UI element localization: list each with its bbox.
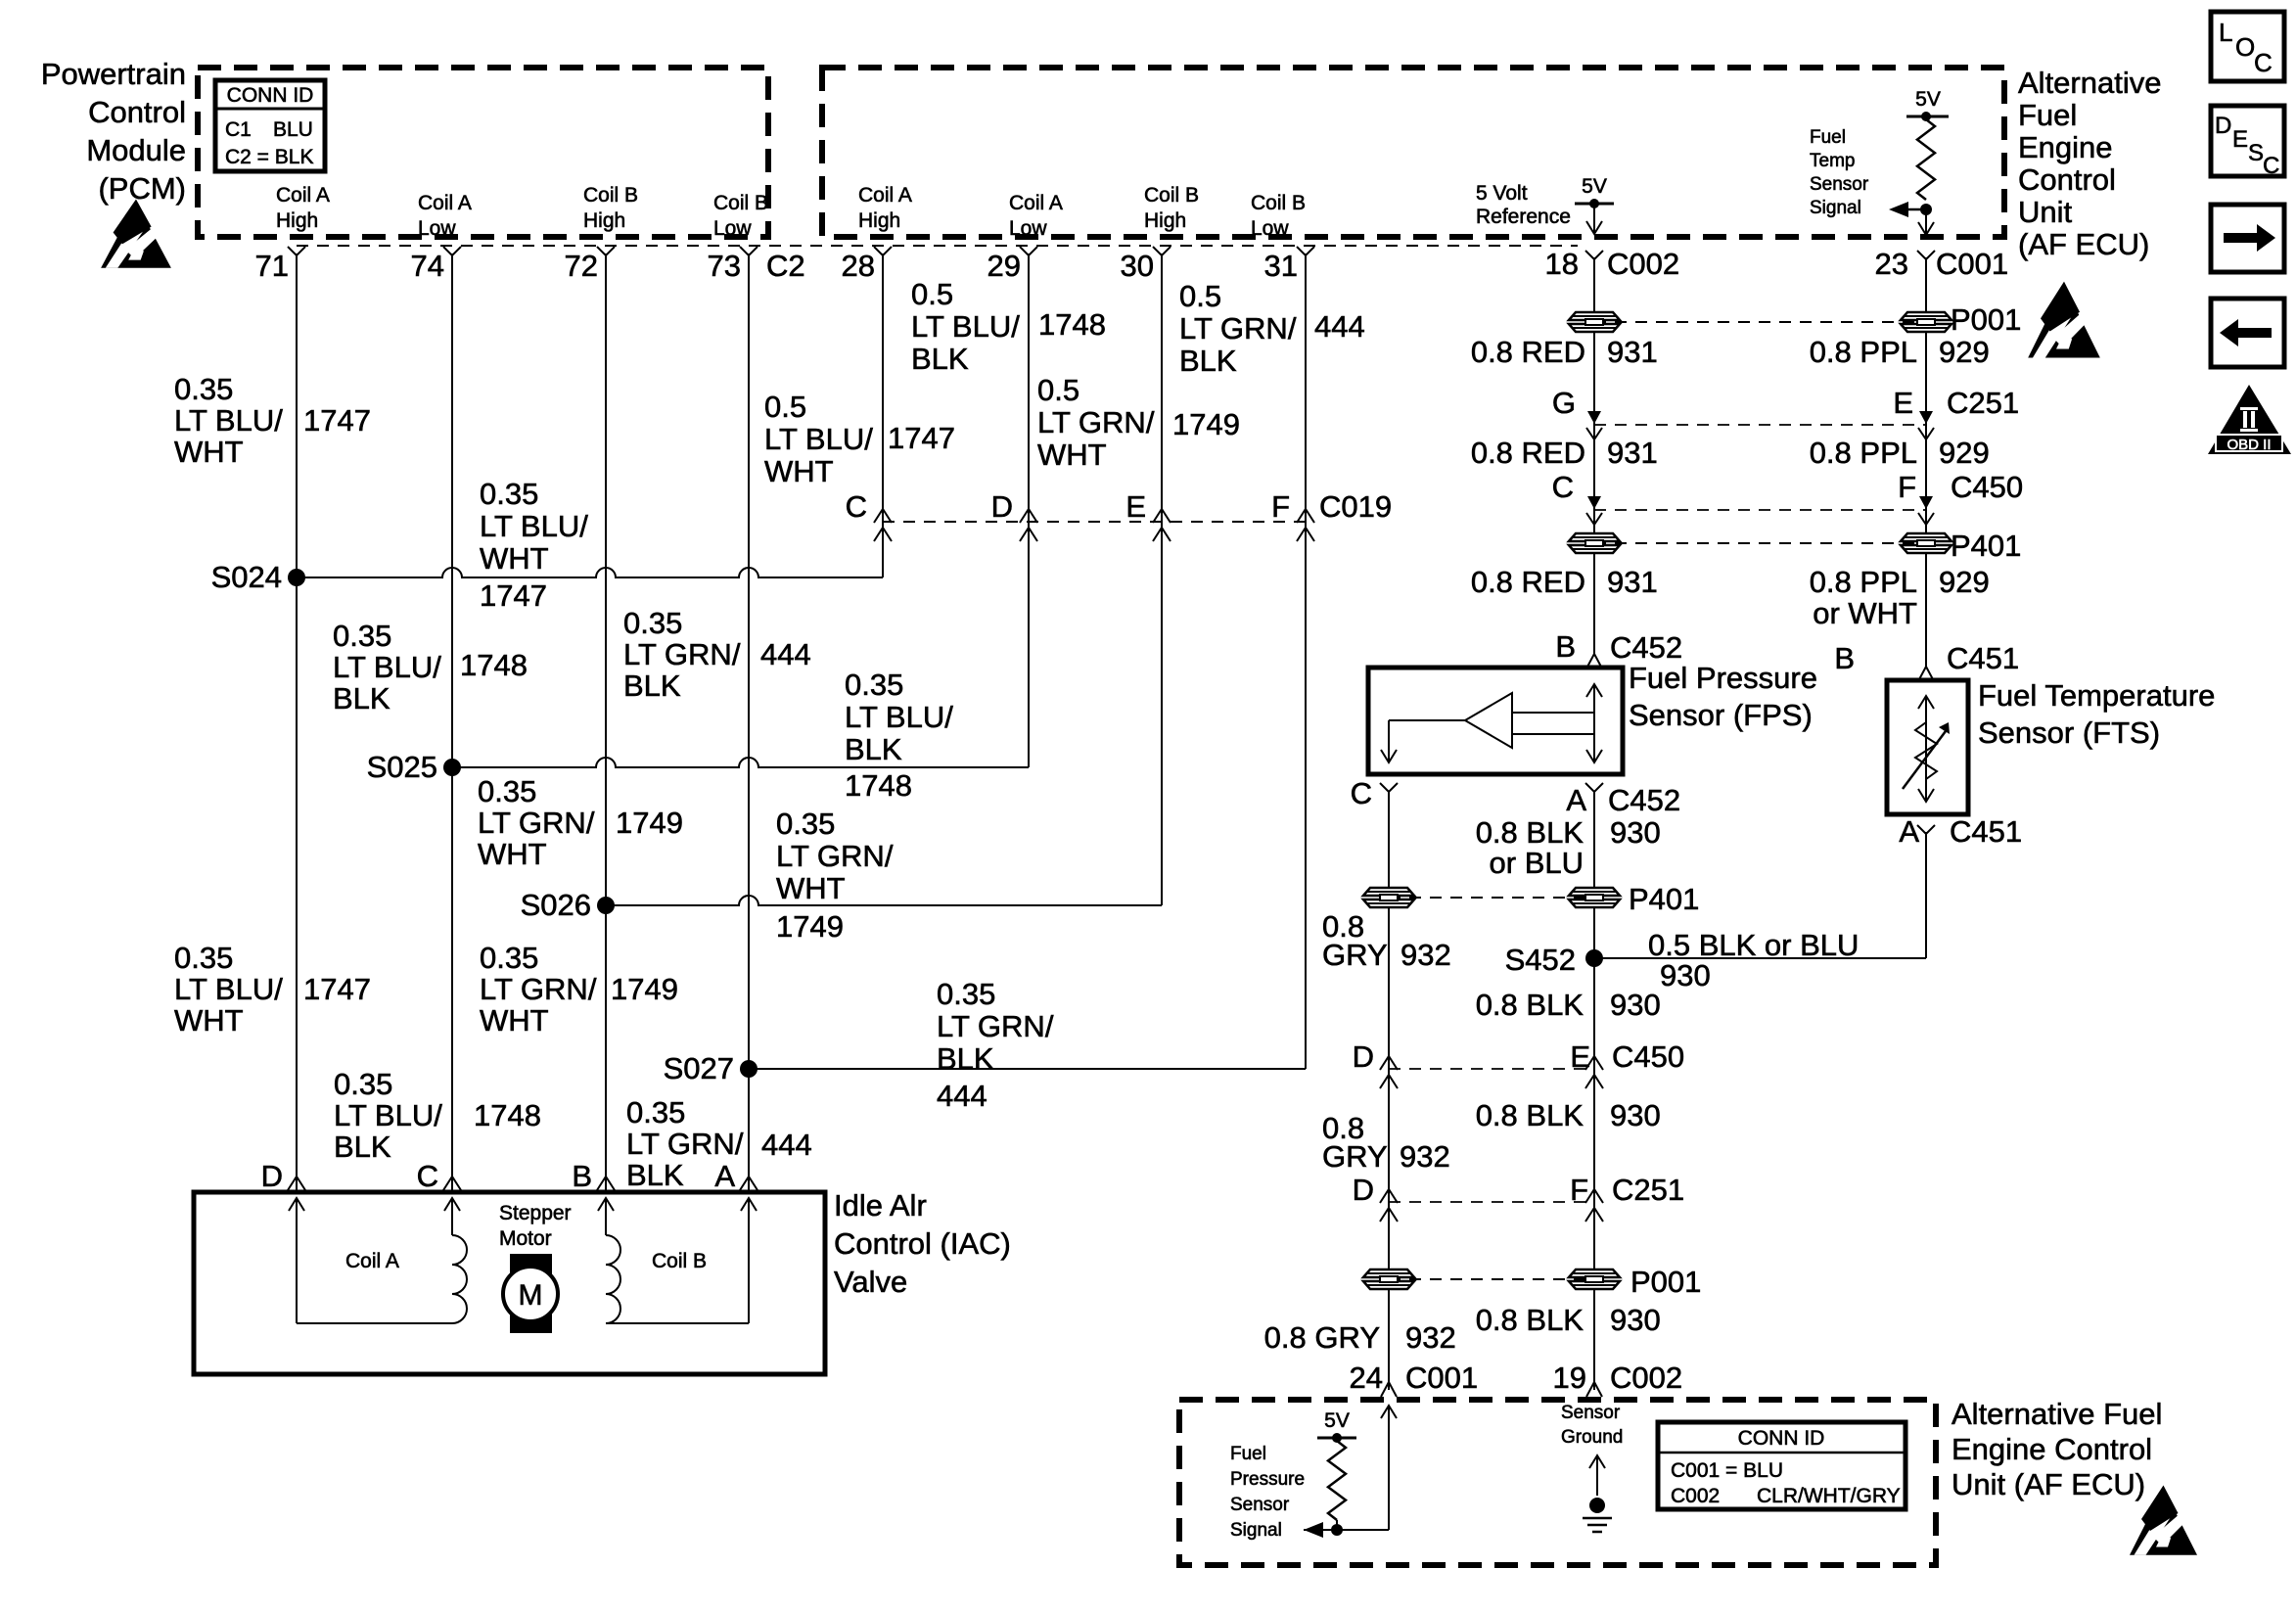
svg-text:A: A xyxy=(1566,783,1586,817)
C019 pin D xyxy=(1020,509,1037,523)
svg-text:0.8 GRY: 0.8 GRY xyxy=(1264,1320,1380,1355)
FPS pin B fork xyxy=(1586,654,1602,669)
svg-text:LT BLU/: LT BLU/ xyxy=(764,422,873,456)
svg-text:WHT: WHT xyxy=(776,871,846,905)
pin 71 (Coil A High) xyxy=(288,247,305,255)
svg-text:5V: 5V xyxy=(1582,175,1607,198)
svg-text:C2: C2 xyxy=(766,249,805,283)
wire: pin 28 down to splice S024 line xyxy=(882,254,884,577)
wire pin 24 to fuel pressure sensor signal node xyxy=(1388,1406,1390,1530)
svg-text:C: C xyxy=(1351,776,1372,810)
svg-text:B: B xyxy=(1555,629,1576,664)
svg-text:Temp: Temp xyxy=(1810,151,1855,171)
wire: pin 23 (0.8 PPL 929) down to FTS pin B xyxy=(1925,257,1927,667)
svg-text:Pressure: Pressure xyxy=(1230,1469,1305,1490)
C019 pin F xyxy=(1297,509,1314,523)
FPS internal amplifier xyxy=(1593,685,1595,734)
svg-text:Sensor: Sensor xyxy=(1810,174,1869,195)
connector dashed line C2/pins row xyxy=(297,245,1578,247)
svg-text:930: 930 xyxy=(1610,1098,1661,1132)
wire: pin 29 down to splice S025 line xyxy=(1028,254,1030,767)
dashed pairing line P001 xyxy=(1594,321,1926,323)
svg-text:0.8 BLK: 0.8 BLK xyxy=(1476,815,1584,850)
svg-text:LT BLU/: LT BLU/ xyxy=(334,1098,442,1132)
pin 23 of C001 xyxy=(1917,251,1935,259)
svg-text:Valve: Valve xyxy=(834,1265,907,1299)
svg-text:5V: 5V xyxy=(1324,1409,1350,1432)
FTS internal thermistor xyxy=(1925,697,1927,801)
svg-text:E: E xyxy=(1893,386,1913,420)
svg-text:Unit: Unit xyxy=(2018,195,2073,229)
svg-text:931: 931 xyxy=(1607,335,1658,369)
svg-text:Coil B: Coil B xyxy=(583,184,638,207)
svg-text:29: 29 xyxy=(987,249,1021,283)
svg-text:D: D xyxy=(1353,1039,1374,1074)
svg-text:C019: C019 xyxy=(1319,489,1392,524)
svg-text:A: A xyxy=(714,1159,735,1193)
in-line connector C251 row (G/E) xyxy=(1594,424,1926,426)
svg-text:71: 71 xyxy=(255,249,289,283)
svg-text:E: E xyxy=(2232,126,2248,153)
dashed pairing line P401 xyxy=(1594,542,1926,544)
svg-text:0.35: 0.35 xyxy=(776,807,835,841)
svg-text:0.35: 0.35 xyxy=(478,774,536,808)
svg-text:1748: 1748 xyxy=(460,648,528,682)
svg-text:0.5: 0.5 xyxy=(911,277,953,311)
svg-text:Fuel Temperature: Fuel Temperature xyxy=(1978,678,2215,713)
IAC pin A xyxy=(740,1177,758,1190)
svg-text:F: F xyxy=(1570,1173,1588,1207)
svg-text:Coil B: Coil B xyxy=(652,1250,707,1272)
svg-text:Motor: Motor xyxy=(499,1227,552,1250)
svg-text:C: C xyxy=(2254,48,2273,77)
svg-text:Low: Low xyxy=(1009,217,1047,240)
svg-text:Coil A: Coil A xyxy=(1009,192,1063,214)
splice S025 xyxy=(443,759,461,776)
svg-text:LT GRN/: LT GRN/ xyxy=(626,1127,744,1161)
CONN ID table (AF ECU): C001=BLU / C002 CLR/WHT/GRY xyxy=(1658,1422,1906,1509)
svg-text:929: 929 xyxy=(1939,335,1990,369)
in-line connector C450 row (D/E) xyxy=(1389,1068,1594,1070)
svg-text:Engine Control: Engine Control xyxy=(1952,1432,2152,1466)
svg-text:1749: 1749 xyxy=(616,806,683,840)
svg-text:D: D xyxy=(1353,1173,1374,1207)
svg-text:WHT: WHT xyxy=(480,1003,549,1038)
svg-text:LT GRN/: LT GRN/ xyxy=(623,637,741,671)
svg-text:CONN ID: CONN ID xyxy=(227,84,314,107)
svg-text:Control: Control xyxy=(88,95,186,129)
FTS pin B fork xyxy=(1918,667,1934,681)
svg-text:BLK: BLK xyxy=(845,732,902,766)
svg-text:WHT: WHT xyxy=(480,541,549,576)
svg-text:444: 444 xyxy=(761,1128,812,1162)
svg-text:O: O xyxy=(2235,32,2255,62)
svg-text:930: 930 xyxy=(1610,815,1661,850)
inline connector P401 left xyxy=(1569,533,1620,553)
svg-text:BLK: BLK xyxy=(623,669,681,703)
svg-text:S: S xyxy=(2248,140,2264,166)
ESD symbol under PCM label xyxy=(101,199,171,267)
svg-text:Coil B: Coil B xyxy=(713,192,768,214)
svg-text:Coil A: Coil A xyxy=(276,184,330,207)
svg-text:Low: Low xyxy=(418,217,456,240)
svg-text:S024: S024 xyxy=(211,560,282,594)
svg-text:0.8 RED: 0.8 RED xyxy=(1471,436,1585,470)
pin 19 of C002 xyxy=(1586,1382,1602,1397)
in-line connector C251 row (D/F) xyxy=(1389,1201,1594,1203)
wire: pin 30 down to splice S026 line xyxy=(1161,254,1163,905)
svg-text:C: C xyxy=(417,1159,438,1193)
svg-text:LT BLU/: LT BLU/ xyxy=(845,700,953,734)
svg-text:74: 74 xyxy=(411,249,444,283)
svg-text:Fuel Pressure: Fuel Pressure xyxy=(1629,661,1817,695)
splice S025 horizontal wire to pin 29 xyxy=(452,758,1029,767)
svg-text:Fuel: Fuel xyxy=(2018,98,2077,132)
svg-text:Sensor: Sensor xyxy=(1230,1495,1290,1515)
svg-text:High: High xyxy=(1144,209,1186,232)
svg-text:(AF ECU): (AF ECU) xyxy=(2018,227,2149,261)
svg-text:Signal: Signal xyxy=(1810,198,1861,218)
wire: pin 71 Coil A High (LT BLU/WHT 1747) down to IAC pin D xyxy=(296,254,298,1192)
wire: FPS pin C down to pin 24 C001 (0.8 GRY 932) xyxy=(1388,792,1390,1390)
svg-text:30: 30 xyxy=(1121,249,1154,283)
sidebar forward arrow box xyxy=(2211,205,2284,272)
inline connector P001 right xyxy=(1901,312,1952,332)
svg-text:0.35: 0.35 xyxy=(333,619,391,653)
svg-text:Unit (AF ECU): Unit (AF ECU) xyxy=(1952,1467,2145,1501)
svg-text:C251: C251 xyxy=(1947,386,2019,420)
svg-text:BLK: BLK xyxy=(911,342,969,376)
svg-text:LT GRN/: LT GRN/ xyxy=(1179,311,1297,346)
svg-text:Alternative Fuel: Alternative Fuel xyxy=(1952,1397,2162,1431)
pin 28 (Coil A High) xyxy=(874,247,892,255)
svg-text:LT GRN/: LT GRN/ xyxy=(776,839,894,873)
OBD II triangle symbol xyxy=(2208,385,2291,454)
svg-text:31: 31 xyxy=(1264,249,1298,283)
svg-text:B: B xyxy=(572,1159,592,1193)
svg-text:1749: 1749 xyxy=(611,972,678,1006)
svg-text:C001 = BLU: C001 = BLU xyxy=(1671,1459,1783,1482)
sidebar LOC box xyxy=(2211,12,2284,81)
svg-text:D: D xyxy=(991,489,1013,524)
svg-text:WHT: WHT xyxy=(478,837,547,871)
svg-text:0.8 PPL: 0.8 PPL xyxy=(1810,436,1917,470)
svg-text:LT GRN/: LT GRN/ xyxy=(478,806,595,840)
svg-text:930: 930 xyxy=(1610,988,1661,1022)
svg-text:0.8 RED: 0.8 RED xyxy=(1471,565,1585,599)
svg-text:Idle Alr: Idle Alr xyxy=(834,1188,927,1223)
wire: pin 18 (0.8 RED 931) down to FPS pin B xyxy=(1593,257,1595,654)
Idle Air Control (IAC) Valve box xyxy=(194,1192,825,1374)
svg-text:5 Volt: 5 Volt xyxy=(1476,182,1528,205)
svg-text:0.35: 0.35 xyxy=(937,977,995,1011)
svg-text:BLK: BLK xyxy=(626,1158,684,1192)
svg-text:B: B xyxy=(1834,641,1855,675)
svg-text:C001: C001 xyxy=(1936,247,2008,281)
sidebar back arrow box xyxy=(2211,299,2284,367)
FPS pin C fork xyxy=(1380,783,1398,792)
svg-text:73: 73 xyxy=(708,249,741,283)
svg-text:930: 930 xyxy=(1660,958,1711,992)
svg-text:M: M xyxy=(519,1279,543,1312)
svg-text:C451: C451 xyxy=(1947,641,2019,675)
svg-text:C002: C002 xyxy=(1607,247,1679,281)
FPS pin A fork xyxy=(1585,783,1603,792)
pin 24 of C001 xyxy=(1381,1382,1397,1397)
svg-text:High: High xyxy=(276,209,318,232)
svg-text:0.8 PPL: 0.8 PPL xyxy=(1810,565,1917,599)
splice S024 horizontal wire to pin 28 xyxy=(297,568,883,577)
inline connector P001 lower right xyxy=(1569,1269,1620,1289)
svg-text:S026: S026 xyxy=(521,888,591,922)
svg-text:OBD II: OBD II xyxy=(2227,437,2271,453)
svg-text:P001: P001 xyxy=(1951,302,2021,337)
svg-text:LT BLU/: LT BLU/ xyxy=(333,650,441,684)
svg-text:0.5: 0.5 xyxy=(1037,373,1079,407)
svg-text:WHT: WHT xyxy=(174,435,244,469)
svg-text:Engine: Engine xyxy=(2018,130,2113,164)
svg-text:Low: Low xyxy=(1251,217,1289,240)
splice S026 horizontal wire to pin 30 xyxy=(606,896,1162,905)
svg-text:C002: C002 xyxy=(1671,1485,1720,1507)
svg-text:Control: Control xyxy=(2018,162,2116,197)
in-line connector C019 dashed line xyxy=(883,521,1306,523)
svg-text:LT GRN/: LT GRN/ xyxy=(480,972,597,1006)
svg-text:C251: C251 xyxy=(1612,1173,1684,1207)
dashed pairing line P001 lower xyxy=(1389,1278,1594,1280)
svg-text:0.8 RED: 0.8 RED xyxy=(1471,335,1585,369)
Fuel Pressure Sensor (FPS) box xyxy=(1368,668,1623,774)
svg-text:LT BLU/: LT BLU/ xyxy=(174,403,283,438)
svg-text:1748: 1748 xyxy=(474,1098,541,1132)
module box: Powertrain Control Module (PCM), dashed outline xyxy=(198,68,768,237)
C019 pin C xyxy=(874,509,892,523)
svg-text:Signal: Signal xyxy=(1230,1520,1282,1541)
node: fuel pressure sensor signal xyxy=(1331,1524,1343,1536)
svg-text:LT GRN/: LT GRN/ xyxy=(1037,405,1155,439)
pin 72 (Coil B High) xyxy=(597,247,615,255)
svg-text:D: D xyxy=(261,1159,283,1193)
svg-text:Coil A: Coil A xyxy=(345,1250,399,1272)
svg-text:LT BLU/: LT BLU/ xyxy=(911,309,1020,344)
wire: FTS pin A down then left to S452 (0.5 BLK or BLU 930) xyxy=(1925,832,1927,958)
svg-text:BLU: BLU xyxy=(273,118,313,141)
svg-text:C001: C001 xyxy=(1405,1361,1478,1395)
inline connector P401 lower right xyxy=(1569,888,1620,907)
svg-text:444: 444 xyxy=(937,1079,987,1113)
svg-text:23: 23 xyxy=(1875,247,1908,281)
wire: FPS pin A down to pin 19 C002 (0.8 BLK 930) xyxy=(1593,792,1595,1390)
svg-text:0.5: 0.5 xyxy=(1179,279,1221,313)
inline connector P001 left xyxy=(1569,312,1620,332)
IAC pin C xyxy=(443,1177,461,1190)
svg-text:C450: C450 xyxy=(1612,1039,1684,1074)
svg-text:Sensor (FTS): Sensor (FTS) xyxy=(1978,715,2160,750)
module box: Alternative Fuel Engine Control Unit (bottom), dashed outline xyxy=(1179,1400,1936,1565)
IAC pin D xyxy=(288,1177,305,1190)
svg-text:1749: 1749 xyxy=(776,909,844,944)
svg-text:0.35: 0.35 xyxy=(626,1095,685,1130)
wire: pin 73 Coil B Low down to IAC pin A xyxy=(748,254,750,1192)
svg-text:0.8 BLK: 0.8 BLK xyxy=(1476,1098,1584,1132)
svg-text:0.35: 0.35 xyxy=(174,941,233,975)
svg-text:929: 929 xyxy=(1939,565,1990,599)
svg-text:S452: S452 xyxy=(1505,943,1576,977)
svg-text:Module: Module xyxy=(86,133,186,167)
pin 18 of C002 xyxy=(1585,251,1603,259)
svg-text:BLK: BLK xyxy=(1179,344,1237,378)
IAC pin B xyxy=(597,1177,615,1190)
inline connector P401 right xyxy=(1901,533,1952,553)
svg-text:D: D xyxy=(2215,113,2231,139)
svg-text:0.35: 0.35 xyxy=(480,941,538,975)
node: fuel temp sensor signal xyxy=(1920,204,1932,215)
ESD symbol near P001 right xyxy=(2028,282,2100,358)
svg-text:1747: 1747 xyxy=(303,972,371,1006)
svg-text:1747: 1747 xyxy=(303,403,371,438)
svg-text:Coil B: Coil B xyxy=(1144,184,1199,207)
svg-text:Alternative: Alternative xyxy=(2018,66,2161,100)
svg-text:CONN ID: CONN ID xyxy=(1738,1427,1825,1450)
svg-text:LT BLU/: LT BLU/ xyxy=(174,972,283,1006)
svg-text:444: 444 xyxy=(760,637,811,671)
svg-text:Ground: Ground xyxy=(1561,1427,1623,1448)
svg-text:72: 72 xyxy=(565,249,598,283)
svg-text:930: 930 xyxy=(1610,1303,1661,1337)
svg-text:28: 28 xyxy=(842,249,875,283)
svg-text:P001: P001 xyxy=(1630,1265,1701,1299)
pin 74 (Coil A Low) xyxy=(443,247,461,255)
svg-text:(PCM): (PCM) xyxy=(98,171,186,206)
svg-text:0.35: 0.35 xyxy=(334,1067,392,1101)
svg-text:LT GRN/: LT GRN/ xyxy=(937,1009,1054,1043)
in-line connector C450 row (C/F) xyxy=(1594,509,1926,511)
svg-text:or WHT: or WHT xyxy=(1813,596,1917,630)
pull-up resistor (fuel pressure sensor) xyxy=(1328,1441,1346,1520)
splice S027 xyxy=(740,1060,758,1078)
svg-text:1747: 1747 xyxy=(480,578,547,613)
FTS pin A fork xyxy=(1917,825,1935,834)
IAC coil B xyxy=(598,1198,614,1211)
svg-text:C1: C1 xyxy=(225,118,252,141)
svg-text:0.8 BLK: 0.8 BLK xyxy=(1476,1303,1584,1337)
svg-text:0.8 PPL: 0.8 PPL xyxy=(1810,335,1917,369)
svg-text:Sensor (FPS): Sensor (FPS) xyxy=(1629,698,1813,732)
sensor ground symbol xyxy=(1589,1455,1605,1468)
svg-text:1747: 1747 xyxy=(888,421,955,455)
svg-text:Low: Low xyxy=(713,217,752,240)
svg-text:GRY: GRY xyxy=(1322,1139,1388,1174)
svg-text:18: 18 xyxy=(1545,247,1579,281)
svg-text:F: F xyxy=(1898,470,1916,504)
Fuel Temperature Sensor (FTS) box xyxy=(1887,680,1968,814)
svg-text:C: C xyxy=(2263,153,2279,179)
svg-text:Stepper: Stepper xyxy=(499,1202,572,1224)
svg-text:C002: C002 xyxy=(1610,1361,1682,1395)
svg-text:931: 931 xyxy=(1607,565,1658,599)
IAC coil A xyxy=(289,1198,304,1211)
svg-text:C2 = BLK: C2 = BLK xyxy=(225,146,313,168)
CONN ID table (PCM): C1 BLU / C2=BLK xyxy=(215,80,325,171)
svg-text:GRY: GRY xyxy=(1322,938,1388,972)
svg-text:1748: 1748 xyxy=(845,768,912,803)
svg-text:BLK: BLK xyxy=(334,1130,391,1164)
svg-text:Fuel: Fuel xyxy=(1810,127,1846,148)
svg-text:High: High xyxy=(858,209,900,232)
pin 31 (Coil B Low) xyxy=(1297,247,1314,255)
splice S027 horizontal wire to pin 31 xyxy=(749,1068,1306,1070)
svg-text:19: 19 xyxy=(1553,1361,1586,1395)
svg-text:Reference: Reference xyxy=(1476,206,1571,228)
svg-text:High: High xyxy=(583,209,625,232)
svg-text:1748: 1748 xyxy=(1038,307,1106,342)
svg-text:S027: S027 xyxy=(664,1051,734,1085)
svg-text:Coil A: Coil A xyxy=(858,184,912,207)
svg-text:or BLU: or BLU xyxy=(1490,846,1584,880)
ESD symbol bottom right xyxy=(2130,1486,2197,1555)
svg-text:WHT: WHT xyxy=(1037,438,1107,472)
svg-text:444: 444 xyxy=(1314,309,1365,344)
svg-text:WHT: WHT xyxy=(174,1003,244,1038)
svg-text:C450: C450 xyxy=(1951,470,2023,504)
svg-text:C: C xyxy=(846,489,867,524)
svg-text:G: G xyxy=(1552,386,1576,420)
wire: pin 31 down to splice S027 line xyxy=(1305,254,1307,1069)
svg-text:Coil A: Coil A xyxy=(418,192,472,214)
sidebar DESC box xyxy=(2211,106,2284,176)
svg-text:P401: P401 xyxy=(1629,882,1699,916)
svg-text:C452: C452 xyxy=(1608,783,1680,817)
wire: pin 72 Coil B High (LT GRN/BLK 444?) down to IAC pin B xyxy=(605,254,607,1192)
svg-text:E: E xyxy=(1125,489,1146,524)
svg-text:931: 931 xyxy=(1607,436,1658,470)
svg-text:C452: C452 xyxy=(1610,630,1682,665)
wire: pin 74 Coil A Low (LT BLU/BLK 1748) down to IAC pin C xyxy=(451,254,453,1192)
svg-text:L: L xyxy=(2219,18,2232,47)
splice S026 xyxy=(597,897,615,914)
svg-text:BLK: BLK xyxy=(333,681,390,715)
inline connector P001 lower left xyxy=(1363,1269,1414,1289)
svg-text:CLR/WHT/GRY: CLR/WHT/GRY xyxy=(1757,1485,1901,1507)
inline connector P401 lower left xyxy=(1363,888,1414,907)
svg-text:5V: 5V xyxy=(1915,88,1941,111)
svg-text:LT BLU/: LT BLU/ xyxy=(480,509,588,543)
pin 30 (Coil B High) xyxy=(1153,247,1171,255)
svg-text:E: E xyxy=(1570,1039,1590,1074)
svg-text:S025: S025 xyxy=(367,750,437,784)
splice S452 xyxy=(1585,949,1603,967)
svg-text:Coil B: Coil B xyxy=(1251,192,1306,214)
svg-text:932: 932 xyxy=(1401,938,1451,972)
svg-text:0.35: 0.35 xyxy=(845,668,903,702)
pin 73 (Coil B Low) xyxy=(740,247,758,255)
svg-text:0.35: 0.35 xyxy=(623,606,682,640)
svg-text:P401: P401 xyxy=(1951,529,2021,563)
svg-text:0.5: 0.5 xyxy=(764,390,806,424)
svg-text:0.35: 0.35 xyxy=(480,477,538,511)
svg-text:WHT: WHT xyxy=(764,454,834,488)
svg-text:0.5 BLK or BLU: 0.5 BLK or BLU xyxy=(1648,928,1859,962)
svg-text:932: 932 xyxy=(1405,1320,1456,1355)
splice S024 xyxy=(288,569,305,586)
svg-text:0.8 BLK: 0.8 BLK xyxy=(1476,988,1584,1022)
svg-text:C: C xyxy=(1552,470,1574,504)
svg-text:Powertrain: Powertrain xyxy=(41,57,186,91)
C019 pin E xyxy=(1153,509,1171,523)
svg-text:A: A xyxy=(1899,814,1919,849)
svg-text:24: 24 xyxy=(1350,1361,1383,1395)
dashed pairing line P401 lower xyxy=(1389,897,1594,899)
